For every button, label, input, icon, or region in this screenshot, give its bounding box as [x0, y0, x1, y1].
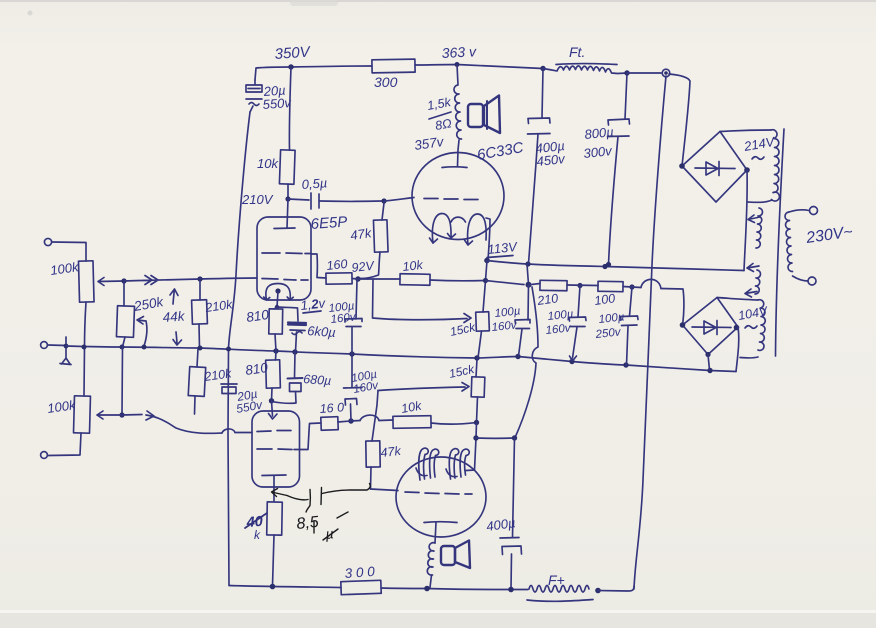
capacitor 20u 550V (stage2) — [221, 383, 237, 385]
node row3 — [348, 418, 353, 423]
node 113V — [484, 258, 490, 264]
bridge rectifier BR2 — [683, 298, 739, 355]
node row2 c — [629, 284, 634, 289]
BR1 top to transformer winding — [720, 130, 771, 132]
V1 cathode arch — [266, 284, 290, 301]
wire pot2 bottom to J3 — [48, 433, 81, 456]
link 113V rail to row2 — [527, 264, 529, 285]
V4 grid wire and dashes — [371, 489, 399, 491]
speaker SP2 cone — [455, 541, 470, 569]
V3 cathode bar — [262, 474, 286, 477]
wire with arrow to 15k pot (V2 grid bias) — [373, 280, 472, 323]
230V bottom terminal — [793, 276, 809, 281]
svg-text:810: 810 — [244, 360, 269, 378]
svg-text:92V: 92V — [351, 259, 376, 275]
svg-text:350V: 350V — [274, 43, 312, 63]
hop over long vertical — [641, 279, 661, 288]
node at 400u tap — [540, 66, 545, 71]
tap winding with arrows — [756, 208, 763, 248]
wire 350V node down to 10k — [289, 67, 291, 150]
svg-text:8Ω: 8Ω — [434, 116, 453, 133]
long left vertical wire (20u cap to bottom rail) — [228, 112, 250, 585]
capacitor 6k0u (V1 cathode bypass) — [277, 307, 298, 321]
V4 heater arches top — [419, 448, 428, 480]
transformer core line — [776, 129, 785, 356]
svg-text:300: 300 — [374, 74, 398, 90]
OT2 winding — [427, 543, 435, 575]
svg-text:3 0 0: 3 0 0 — [344, 564, 375, 581]
V1 screen exit wire — [311, 254, 326, 278]
capacitor 100u 160V (row2 a) — [527, 285, 530, 320]
svg-text:47k: 47k — [380, 444, 402, 460]
capacitor 100u 160V (stage1) — [356, 280, 357, 319]
node row2 a — [526, 282, 532, 288]
mid rail node dots — [82, 345, 87, 350]
transformer primary winding 214V — [771, 130, 779, 201]
svg-text:k: k — [254, 528, 261, 542]
vertical 113V to row2 to 15k pot — [483, 261, 487, 313]
arrow down annotation — [173, 332, 182, 345]
svg-text:F+: F+ — [548, 572, 565, 588]
capacitor 400u (output stage2) — [513, 438, 515, 538]
choke Ft winding — [543, 66, 627, 74]
svg-text:160: 160 — [326, 257, 348, 273]
svg-text:44k: 44k — [162, 308, 186, 325]
resistor 210k (lower) — [197, 349, 198, 367]
OT1 primary winding — [454, 65, 462, 140]
V4 plate bar — [424, 521, 457, 524]
circled junction node — [662, 69, 670, 77]
hop over 47k vertical — [360, 415, 379, 420]
underline of 1,2V — [303, 311, 321, 313]
arrow up annotation — [170, 289, 178, 304]
input jack J1 — [44, 238, 51, 245]
ground arrow marker — [60, 337, 71, 365]
tube 6C33C (V2) envelope — [412, 153, 504, 240]
230V secondary winding — [785, 212, 793, 272]
node row2 b — [577, 283, 582, 288]
capacitor 100u 160V (stage2) — [351, 354, 353, 388]
capacitor 20u 550V top-left — [254, 80, 256, 84]
capacitor 400u (psu) — [542, 69, 543, 119]
V1 screen dashes — [262, 252, 311, 255]
V1 cathode arch arrowheads — [264, 297, 294, 300]
tube 6C33C (V4) envelope — [396, 457, 486, 537]
svg-text:47k: 47k — [349, 225, 373, 243]
BR1 right corner down to 113V rail — [744, 170, 747, 271]
black added arrow at V3 cathode — [272, 484, 371, 542]
svg-text:10k: 10k — [257, 156, 279, 171]
vertical to heater V4 — [475, 423, 477, 471]
wire to 400u cap — [476, 437, 514, 439]
grid dashes inside 6C33C — [424, 199, 478, 200]
input jack J3 (lower) — [41, 452, 48, 459]
svg-text:8,5: 8,5 — [296, 514, 320, 533]
svg-text:10k: 10k — [402, 258, 424, 274]
wire 10k to 210V node — [287, 184, 289, 199]
middle long rail — [66, 346, 736, 372]
V1 grid dashes inside — [262, 279, 308, 281]
resistor 300 (bottom) — [341, 580, 381, 594]
resistor 100 (row2) — [598, 281, 623, 291]
V3 cathode lead — [273, 476, 275, 502]
capacitor 800u — [625, 73, 627, 119]
svg-text:113V: 113V — [487, 239, 519, 257]
V1 anode bar — [274, 227, 295, 230]
descending wire row2 to 400u (with rail hop) — [516, 287, 539, 437]
resistor 10k (row1) — [400, 274, 430, 286]
V1 anode lead — [287, 199, 288, 228]
capacitor 680u — [294, 352, 297, 378]
capacitor 100u 160V (row2 b) — [578, 286, 580, 318]
node 210k top — [197, 276, 202, 281]
potentiometer 250k — [123, 281, 125, 306]
node 210V — [285, 196, 290, 201]
104V winding — [758, 300, 765, 351]
wire junction to bridge1 — [669, 74, 690, 166]
wire 160 to 10k — [352, 278, 367, 281]
V1 cathode node — [275, 288, 280, 293]
104V winding bottom wire — [740, 357, 758, 358]
pot wiper arrow into 100k — [98, 278, 124, 286]
250k bottom wire through rail — [122, 337, 125, 415]
svg-text:Ft.: Ft. — [569, 44, 585, 60]
V2 heater/cathode arches — [432, 214, 451, 244]
wire choke to junction — [627, 72, 661, 74]
F+ heater squiggle — [529, 586, 589, 593]
hop over left vertical — [222, 429, 235, 433]
resistor 160 (V3 screen) — [321, 417, 338, 431]
V3 grid wire with arrow — [122, 411, 222, 433]
resistor 300 (top) — [372, 59, 415, 73]
black wire to 47k bottom — [322, 484, 370, 494]
resistor 210k (upper) — [199, 279, 201, 300]
V2 plate bar — [442, 166, 467, 169]
BR2 diode symbol — [692, 326, 731, 329]
capacitor 100u 250V (row2 c) — [630, 287, 633, 316]
wire node to 6C33C grid — [384, 198, 414, 202]
bridge rectifier BR1 — [682, 132, 747, 203]
wire hop to tube V3 grid — [235, 432, 252, 434]
OT2 bottom wire — [430, 575, 432, 588]
wire 10k to 113V vertical — [430, 279, 485, 282]
node 350V — [288, 64, 293, 69]
wire top rail left segment — [255, 66, 372, 80]
input jack J2 (mid) — [41, 342, 48, 349]
svg-text:680µ: 680µ — [303, 372, 332, 388]
potentiometer 15k (upper) — [476, 312, 490, 331]
speaker SP1 cone — [484, 96, 500, 134]
V3 screen dashes — [257, 448, 292, 451]
wire 47k top to 15k wiper arrow — [378, 383, 469, 392]
V3 grid dashes — [257, 431, 291, 432]
svg-text:210V: 210V — [241, 192, 274, 207]
svg-text:300v: 300v — [583, 143, 614, 161]
choke Ft overline — [556, 63, 617, 66]
svg-text:800µ: 800µ — [584, 124, 615, 142]
V1 cathode lead — [277, 292, 278, 308]
svg-text:363 v: 363 v — [441, 43, 477, 61]
node V3 anode — [269, 398, 274, 403]
resistor 10k (plate load V1) — [279, 150, 295, 184]
node grid row / 250k — [121, 278, 126, 283]
V2 cathode bar to 113V — [486, 218, 490, 260]
bottom rail — [229, 586, 528, 590]
wire F+ to right vertical — [598, 586, 634, 591]
speaker SP2 body — [441, 546, 455, 565]
wire 10k row3 to vertical — [431, 423, 477, 425]
speaker SP1 body — [468, 104, 483, 127]
coupling capacitor 0,5u — [288, 199, 309, 200]
230V top terminal — [789, 210, 809, 212]
node after choke — [624, 70, 629, 75]
potentiometer 100k (lower) — [74, 396, 91, 433]
250k wiper arrow — [137, 317, 147, 347]
node 92V — [355, 276, 360, 281]
svg-text:6E5P: 6E5P — [310, 213, 348, 233]
resistor 810 (V1 cathode) — [274, 307, 277, 309]
tube 6E5P (V1) envelope — [257, 217, 311, 300]
resistor 47k (V2 grid leak) — [382, 203, 384, 220]
potentiometer 15k (lower) — [476, 359, 477, 377]
black capacitor 8,5u plates — [306, 490, 310, 513]
wire 250k wiper to rail node — [119, 412, 124, 417]
resistor 10k (row3) — [379, 419, 393, 422]
wire J2 to rail — [48, 344, 66, 347]
svg-text:550v: 550v — [262, 95, 293, 112]
V4 plate lead — [435, 523, 436, 544]
resistor 40k (V3 cathode) — [267, 502, 283, 535]
V2 plate lead — [458, 140, 460, 166]
F+ underline — [527, 600, 593, 602]
svg-text:1,2v: 1,2v — [300, 295, 328, 313]
row2 wire from 113V vertical — [486, 281, 525, 285]
resistor 47k (stage2) — [372, 391, 378, 442]
wire pot1 bottom through rail to pot2 top — [84, 302, 86, 396]
resistor 210 (row2) — [529, 284, 541, 285]
winding bottom to vertical — [748, 200, 772, 202]
BR2 top to 104V winding — [717, 298, 758, 301]
100k lower wiper arrow — [97, 411, 122, 419]
node 363V — [455, 62, 460, 67]
svg-text:100: 100 — [593, 291, 616, 308]
potentiometer 100k (upper) — [78, 261, 94, 302]
113V rail — [487, 261, 744, 271]
resistor 160 (V1 screen) — [326, 273, 352, 284]
resistor 810 (V3 chain upper) — [275, 351, 278, 360]
BR1 diode symbol — [695, 167, 735, 170]
wire hop to bridge2 — [661, 289, 684, 326]
wire top rail mid segment — [415, 65, 543, 69]
V1 grid wire with arrow — [124, 276, 257, 285]
V3 screen exit to 160 — [294, 423, 321, 450]
BR2 right corner to mid rail — [736, 327, 739, 372]
svg-text:16 0: 16 0 — [319, 400, 344, 416]
svg-text:810: 810 — [245, 307, 270, 325]
BR2 bottom stub — [708, 355, 710, 371]
svg-text:0,5µ: 0,5µ — [301, 175, 328, 192]
tube 6E5P (V3) envelope — [252, 411, 300, 487]
V3 anode lead with arrow — [269, 401, 278, 419]
svg-text:450v: 450v — [536, 151, 567, 169]
wire J1 to pot — [52, 242, 86, 261]
node V2 grid — [381, 198, 386, 203]
long right vertical wire to bottom rail — [634, 76, 666, 589]
